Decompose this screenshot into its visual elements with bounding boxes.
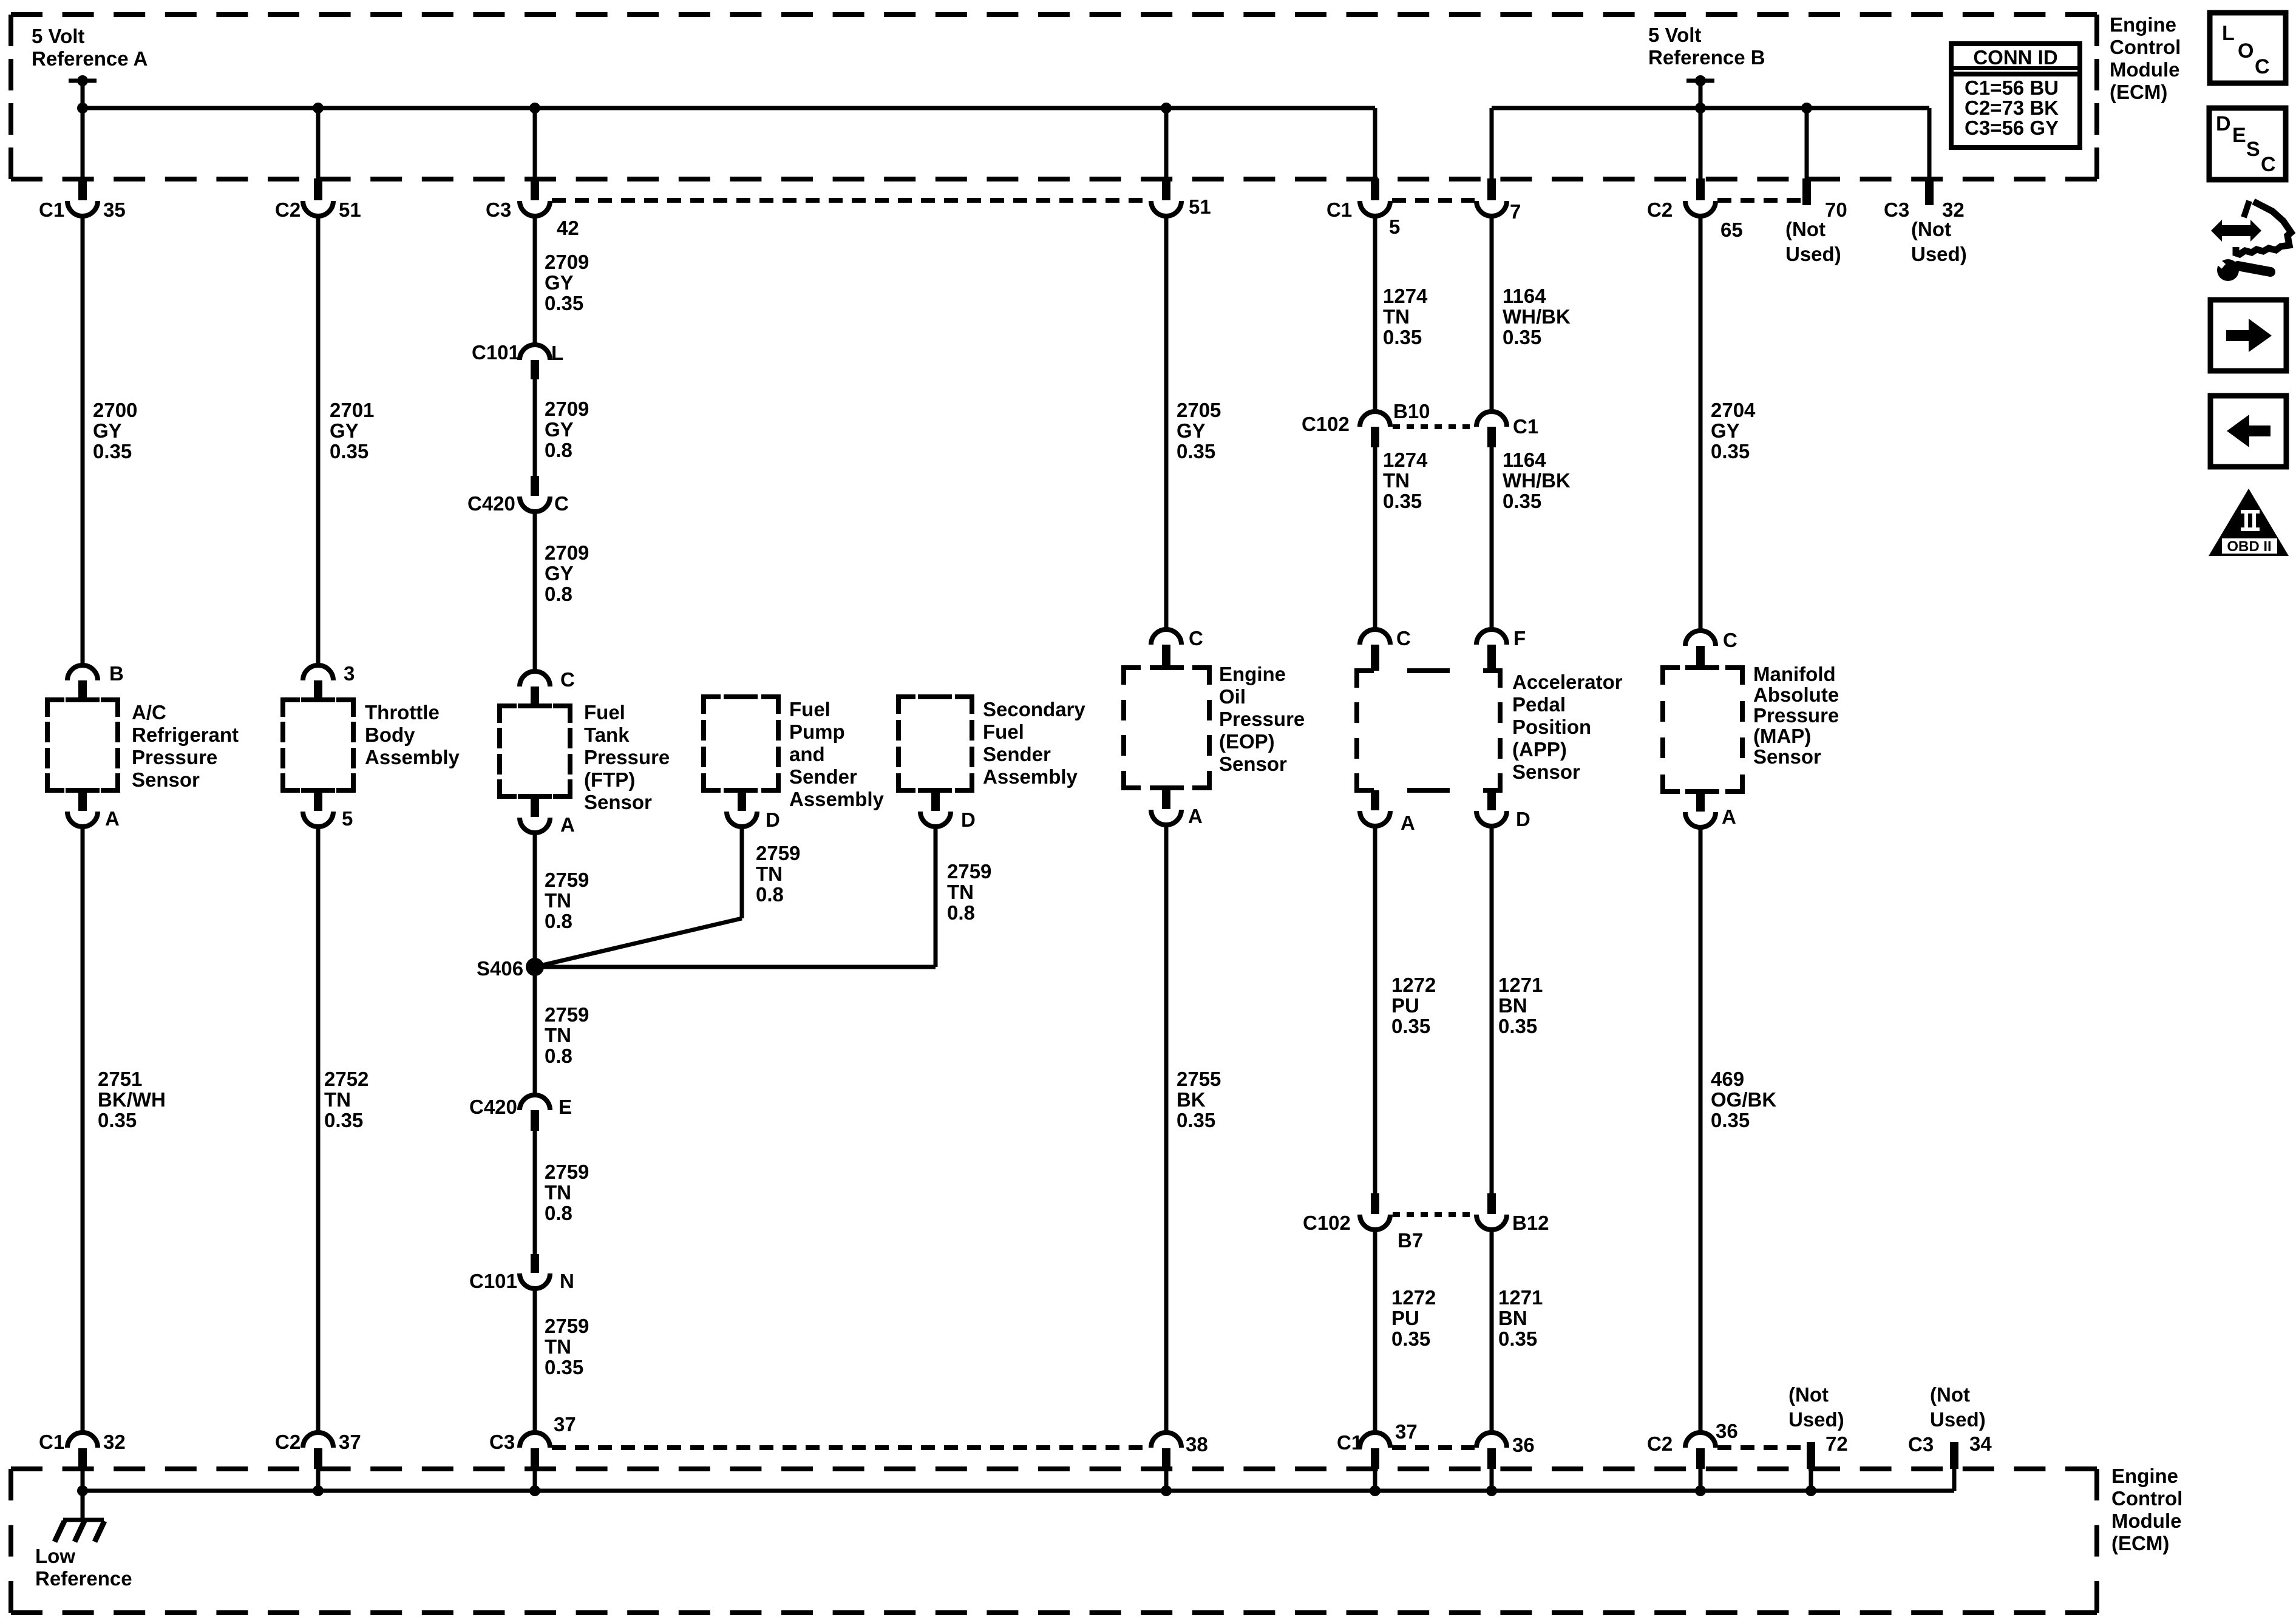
wire 2759 TN S406 to C420 E [533, 967, 537, 1096]
dotted connector line C3 37 to 38 [552, 1445, 1149, 1450]
svg-text:5: 5 [342, 807, 353, 830]
wire 1164 WH/BK C102 to APP pin F [1490, 447, 1494, 630]
svg-text:Sensor: Sensor [1512, 761, 1580, 783]
svg-text:(Not: (Not [1785, 218, 1826, 240]
svg-text:BK/WH: BK/WH [98, 1088, 166, 1111]
junction dots on bottom bus [77, 1485, 88, 1496]
svg-text:51: 51 [1189, 195, 1211, 218]
svg-text:70: 70 [1825, 198, 1847, 221]
svg-text:C: C [2261, 153, 2276, 176]
svg-text:3: 3 [344, 662, 355, 685]
pin C1:5 connector at ECM [1373, 108, 1377, 179]
svg-text:Sensor: Sensor [1753, 745, 1821, 768]
svg-text:OBD II: OBD II [2227, 538, 2271, 555]
svg-text:Fuel: Fuel [789, 698, 830, 720]
svg-text:Reference A: Reference A [32, 47, 148, 70]
svg-text:E: E [2232, 124, 2246, 147]
svg-text:S406: S406 [477, 957, 523, 980]
svg-text:Used): Used) [1785, 243, 1841, 265]
svg-text:C2=73 BK: C2=73 BK [1965, 97, 2059, 119]
pin 5 connector at throttle body [314, 790, 322, 811]
svg-text:PU: PU [1391, 994, 1419, 1017]
svg-text:1164: 1164 [1503, 449, 1546, 471]
svg-text:C: C [1189, 627, 1203, 649]
dotted connector line C1 5 to 7 [1392, 198, 1475, 203]
svg-text:(APP): (APP) [1512, 738, 1567, 761]
svg-text:F: F [1513, 627, 1526, 649]
Manifold Absolute Pressure MAP Sensor box [1663, 668, 1680, 685]
svg-text:2709: 2709 [545, 541, 589, 564]
svg-text:C3: C3 [486, 198, 511, 221]
ground chassis symbol [81, 1491, 85, 1520]
connector C420 pin E [520, 1095, 550, 1110]
wire 2759 TN C101 to C3:37 [533, 1289, 537, 1434]
svg-text:C3: C3 [1884, 198, 1909, 221]
svg-text:469: 469 [1711, 1068, 1744, 1090]
svg-text:A: A [1401, 812, 1415, 834]
svg-text:(EOP): (EOP) [1219, 730, 1275, 753]
svg-text:Pedal: Pedal [1512, 693, 1566, 716]
svg-text:0.35: 0.35 [1391, 1015, 1430, 1037]
pin C connector at APP sensor [1360, 629, 1390, 645]
svg-text:Assembly: Assembly [789, 788, 885, 810]
icon service vehicle outline [2244, 201, 2249, 217]
svg-text:C2: C2 [275, 1431, 301, 1453]
svg-text:C1: C1 [39, 1431, 64, 1453]
svg-text:37: 37 [1395, 1420, 1418, 1443]
svg-text:CONN ID: CONN ID [1973, 46, 2057, 69]
svg-text:Engine: Engine [2110, 13, 2176, 36]
svg-text:2755: 2755 [1177, 1068, 1221, 1090]
svg-text:Tank: Tank [584, 724, 630, 746]
svg-text:C: C [1396, 627, 1411, 649]
svg-text:0.35: 0.35 [1503, 326, 1541, 348]
svg-text:0.8: 0.8 [545, 910, 572, 932]
pin C2:37 connector at ECM bottom [303, 1432, 333, 1448]
svg-text:C102: C102 [1302, 413, 1350, 435]
A/C Refrigerant Pressure Sensor box [47, 700, 64, 717]
svg-text:C1=56 BU: C1=56 BU [1965, 76, 2059, 99]
icon arrow left box [2210, 396, 2286, 467]
svg-text:0.35: 0.35 [545, 1356, 583, 1378]
wire 2759 TN FTP sensor to S406 [533, 833, 537, 967]
svg-text:Pump: Pump [789, 720, 845, 743]
svg-text:5: 5 [1389, 215, 1400, 238]
svg-text:L: L [2222, 22, 2235, 45]
wire 2759 TN C420 to C101 N [533, 1131, 537, 1254]
wire 2709 GY C420 to FTP sensor [533, 512, 537, 672]
svg-text:GY: GY [1711, 419, 1740, 442]
svg-text:GY: GY [545, 271, 574, 294]
svg-text:OG/BK: OG/BK [1711, 1088, 1776, 1111]
svg-text:Secondary: Secondary [983, 698, 1085, 720]
svg-text:0.35: 0.35 [1503, 490, 1541, 512]
svg-text:1271: 1271 [1498, 1286, 1543, 1309]
svg-text:1271: 1271 [1498, 974, 1543, 996]
svg-text:C3: C3 [489, 1431, 515, 1453]
pin D connector at APP sensor [1487, 790, 1496, 810]
wire Low Reference bus [83, 1489, 1954, 1493]
wire 2752 TN throttle body to C2:37 [316, 827, 321, 1434]
svg-text:2759: 2759 [545, 869, 589, 891]
svg-text:0.35: 0.35 [324, 1109, 363, 1131]
wire 2709 GY C101 to C420 [533, 379, 537, 476]
svg-text:1164: 1164 [1503, 285, 1546, 307]
svg-text:37: 37 [339, 1431, 361, 1453]
wire 1272 PU APP to C102 B7 [1373, 826, 1377, 1193]
dotted connector line C2 65 to 70 [1717, 198, 1802, 203]
svg-text:Engine: Engine [2111, 1465, 2178, 1487]
svg-text:2701: 2701 [330, 399, 374, 421]
svg-text:2705: 2705 [1177, 399, 1221, 421]
svg-text:A: A [1188, 805, 1203, 827]
pin F connector at APP sensor [1476, 629, 1507, 645]
svg-text:Low: Low [35, 1545, 75, 1567]
pin A connector at FTP sensor [531, 796, 539, 817]
svg-text:Control: Control [2110, 36, 2181, 58]
svg-text:38: 38 [1186, 1433, 1208, 1456]
svg-text:0.35: 0.35 [1711, 1109, 1750, 1131]
svg-text:TN: TN [947, 881, 974, 903]
svg-text:C101: C101 [472, 341, 520, 364]
icon service double arrow [2211, 220, 2261, 242]
wire 1274 TN C1:5 to C102 B10 [1373, 216, 1377, 412]
CONN ID table [1951, 44, 2080, 147]
svg-text:D: D [766, 808, 780, 831]
svg-text:Fuel: Fuel [584, 701, 625, 724]
svg-text:(Not: (Not [1930, 1383, 1970, 1406]
connector C101 pin L [520, 345, 550, 360]
svg-text:(FTP): (FTP) [584, 768, 635, 791]
svg-text:Used): Used) [1911, 243, 1967, 265]
svg-text:Reference B: Reference B [1648, 46, 1765, 69]
ECM bottom dashed box [11, 1466, 2097, 1471]
svg-text:GY: GY [1177, 419, 1206, 442]
svg-text:Oil: Oil [1219, 685, 1246, 708]
svg-text:WH/BK: WH/BK [1503, 469, 1571, 492]
pin D connector at fuel pump [738, 790, 746, 811]
svg-text:51: 51 [339, 198, 361, 221]
svg-text:Pressure: Pressure [1753, 704, 1839, 727]
svg-text:TN: TN [1383, 469, 1410, 492]
svg-text:Manifold: Manifold [1753, 663, 1836, 685]
pin C2:51 connector at ECM [316, 108, 321, 179]
svg-text:0.35: 0.35 [1498, 1327, 1537, 1350]
svg-text:(ECM): (ECM) [2110, 81, 2167, 103]
svg-text:Pressure: Pressure [584, 746, 670, 768]
svg-text:0.35: 0.35 [98, 1109, 137, 1131]
dotted connector line C1 37 to 36 [1392, 1445, 1475, 1450]
svg-text:0.35: 0.35 [1383, 326, 1422, 348]
svg-text:36: 36 [1512, 1434, 1535, 1456]
svg-text:B12: B12 [1512, 1212, 1549, 1234]
wire 2701 GY C2:51 to throttle body [316, 216, 321, 666]
svg-text:Sender: Sender [983, 743, 1051, 765]
icon DESC box [2209, 108, 2286, 180]
pin C2:36 connector at ECM bottom [1685, 1432, 1716, 1448]
wire 2759 TN fuel pump to S406 [740, 827, 744, 918]
svg-text:Accelerator: Accelerator [1512, 671, 1623, 693]
connector C102 pin B10 [1360, 412, 1390, 427]
svg-text:BK: BK [1177, 1088, 1206, 1111]
pin A connector at MAP sensor [1696, 792, 1705, 812]
svg-text:0.35: 0.35 [1391, 1327, 1430, 1350]
svg-text:O: O [2238, 39, 2254, 63]
svg-text:2759: 2759 [545, 1315, 589, 1337]
pin 70 Not Used stub [1805, 108, 1809, 179]
svg-text:B: B [109, 662, 124, 685]
svg-text:37: 37 [554, 1413, 576, 1436]
svg-text:Throttle: Throttle [365, 701, 440, 724]
svg-text:L: L [551, 342, 563, 364]
connector C102 pin C1 [1476, 412, 1507, 427]
svg-text:(Not: (Not [1911, 218, 1951, 240]
svg-text:0.35: 0.35 [93, 440, 132, 463]
pin 51 connector at ECM (EOP feed) [1164, 108, 1169, 179]
svg-text:C3: C3 [1908, 1433, 1934, 1456]
svg-text:TN: TN [545, 1024, 571, 1046]
wire 2751 BK/WH A/C sensor to C1:32 [81, 827, 85, 1434]
svg-text:0.35: 0.35 [1383, 490, 1422, 512]
svg-text:Reference: Reference [35, 1567, 132, 1590]
svg-text:C1: C1 [1326, 198, 1352, 221]
pin A connector at EOP sensor [1162, 788, 1170, 809]
svg-text:5 Volt: 5 Volt [32, 25, 84, 47]
node 5V Reference B tap [1686, 79, 1714, 83]
svg-text:D: D [961, 808, 976, 831]
dashed connector line C102 B7 to B12 [1393, 1212, 1474, 1217]
svg-text:5 Volt: 5 Volt [1648, 24, 1701, 46]
pin C1:35 connector at ECM [81, 108, 85, 179]
svg-text:0.35: 0.35 [1711, 440, 1750, 463]
svg-text:GY: GY [545, 418, 574, 441]
svg-text:C102: C102 [1303, 1212, 1351, 1234]
svg-text:C: C [560, 668, 575, 691]
wire 2700 GY C1:35 to A/C sensor [81, 216, 85, 666]
wire 2705 GY pin51 to EOP sensor [1164, 216, 1169, 630]
svg-text:0.35: 0.35 [330, 440, 369, 463]
svg-text:2759: 2759 [947, 860, 991, 883]
splice S406 [526, 958, 544, 976]
svg-text:2759: 2759 [545, 1003, 589, 1026]
wire 2709 GY C3:42 to C101 [533, 216, 537, 345]
svg-text:(Not: (Not [1788, 1383, 1829, 1406]
pin C3:32 Not Used stub [1927, 108, 1932, 179]
svg-text:32: 32 [103, 1431, 126, 1453]
svg-text:72: 72 [1826, 1432, 1848, 1455]
svg-text:C2: C2 [1647, 198, 1673, 221]
node 5V Reference A tap [69, 79, 97, 83]
svg-text:Position: Position [1512, 716, 1591, 738]
pin C2:65 connector at ECM [1699, 108, 1703, 179]
svg-text:C2: C2 [1647, 1432, 1673, 1455]
connector C420 pin C [531, 476, 539, 496]
svg-text:34: 34 [1969, 1432, 1992, 1455]
svg-text:2704: 2704 [1711, 399, 1756, 421]
Fuel Pump and Sender Assembly box [704, 697, 721, 714]
svg-text:C: C [554, 492, 569, 515]
svg-text:2759: 2759 [756, 842, 800, 864]
svg-text:Sender: Sender [789, 765, 857, 788]
pin 36 connector at ECM bottom [1476, 1432, 1507, 1448]
svg-text:A: A [105, 807, 120, 830]
svg-text:E: E [559, 1096, 572, 1118]
icon service wrench [2217, 259, 2239, 281]
svg-text:C420: C420 [469, 1096, 517, 1118]
svg-text:1272: 1272 [1391, 1286, 1436, 1309]
svg-text:C: C [1723, 629, 1737, 651]
svg-text:GY: GY [93, 419, 122, 442]
svg-text:0.8: 0.8 [545, 583, 572, 605]
dotted connector line C3 42 to 51 [552, 198, 1149, 203]
svg-text:(MAP): (MAP) [1753, 725, 1811, 747]
svg-text:Module: Module [2111, 1510, 2181, 1532]
wire 1164 WH/BK pin7 to C102 C1 [1490, 216, 1494, 412]
pin C connector at MAP sensor [1685, 631, 1716, 646]
wire 5V Reference A bus [83, 106, 1375, 110]
Accelerator Pedal Position APP Sensor box [1357, 671, 1374, 688]
svg-text:0.8: 0.8 [545, 439, 572, 461]
svg-text:TN: TN [545, 1335, 571, 1358]
svg-text:C1: C1 [1337, 1431, 1362, 1454]
svg-text:C101: C101 [469, 1270, 517, 1292]
pin D connector at secondary fuel sender [931, 790, 940, 811]
svg-text:Used): Used) [1930, 1408, 1986, 1431]
svg-text:0.8: 0.8 [545, 1045, 572, 1067]
svg-text:Sensor: Sensor [1219, 753, 1287, 775]
svg-text:0.35: 0.35 [1498, 1015, 1537, 1037]
svg-text:BN: BN [1498, 1307, 1527, 1329]
svg-text:C420: C420 [467, 492, 515, 515]
pin 7 connector at ECM [1490, 108, 1494, 179]
icon arrow right box [2210, 300, 2286, 371]
wire 1272 PU C102 to C1:37 [1373, 1230, 1377, 1434]
svg-text:2751: 2751 [98, 1068, 142, 1090]
svg-text:(ECM): (ECM) [2111, 1532, 2169, 1554]
svg-text:0.8: 0.8 [545, 1202, 572, 1224]
svg-text:Control: Control [2111, 1487, 2182, 1510]
svg-text:N: N [560, 1270, 574, 1292]
svg-text:GY: GY [545, 562, 574, 585]
pin C3:34 Not Used stub bottom [1950, 1442, 1958, 1469]
svg-text:1272: 1272 [1391, 974, 1436, 996]
svg-text:0.35: 0.35 [545, 292, 583, 314]
wire 1271 BN C102 to pin 36 [1490, 1230, 1494, 1434]
svg-text:Fuel: Fuel [983, 720, 1024, 743]
svg-text:7: 7 [1510, 200, 1521, 223]
svg-text:C: C [2255, 55, 2270, 78]
svg-text:GY: GY [330, 419, 359, 442]
pin A connector at APP sensor [1371, 790, 1379, 810]
Fuel Tank Pressure FTP Sensor box [500, 706, 517, 723]
svg-text:0.8: 0.8 [756, 883, 784, 906]
dashed connector line C102 B10 to C1 [1393, 424, 1474, 429]
pin 38 connector at ECM bottom [1151, 1432, 1181, 1448]
svg-text:B7: B7 [1398, 1229, 1423, 1252]
connector C101 pin N [531, 1254, 539, 1273]
pin C connector at FTP sensor [520, 671, 550, 686]
svg-text:A/C: A/C [132, 701, 166, 724]
svg-text:Pressure: Pressure [132, 746, 217, 768]
wire 2759 TN secondary sender to S406 [934, 827, 938, 967]
connector C102 pin B7 [1371, 1193, 1379, 1214]
svg-text:D: D [1516, 808, 1530, 830]
svg-text:36: 36 [1716, 1420, 1738, 1442]
svg-text:TN: TN [545, 1181, 571, 1204]
wire 1271 BN APP to C102 B12 [1490, 826, 1494, 1193]
svg-text:D: D [2216, 112, 2231, 135]
pin 3 connector at throttle body [303, 665, 333, 680]
dotted connector line C2 36 to 72 [1717, 1445, 1806, 1450]
pin C1:32 connector at ECM bottom [67, 1432, 98, 1448]
svg-text:0.35: 0.35 [1177, 1109, 1215, 1131]
pin C1:37 connector at ECM bottom [1360, 1432, 1390, 1448]
pin C3:42 connector at ECM [533, 108, 537, 179]
svg-text:2752: 2752 [324, 1068, 369, 1090]
svg-text:C3=56 GY: C3=56 GY [1965, 117, 2059, 139]
svg-text:A: A [1722, 805, 1736, 828]
svg-text:2709: 2709 [545, 251, 589, 273]
svg-text:Sensor: Sensor [132, 768, 200, 791]
svg-text:Absolute: Absolute [1753, 683, 1839, 706]
svg-text:BN: BN [1498, 994, 1527, 1017]
svg-text:2709: 2709 [545, 398, 589, 420]
Secondary Fuel Sender Assembly box [898, 697, 915, 714]
svg-text:0.35: 0.35 [1177, 440, 1215, 463]
svg-text:2700: 2700 [93, 399, 137, 421]
junction dots on bus B [1695, 103, 1706, 114]
svg-text:Assembly: Assembly [983, 765, 1078, 788]
svg-text:TN: TN [1383, 305, 1410, 328]
svg-text:Engine: Engine [1219, 663, 1286, 685]
wire 2704 GY C2:65 to MAP sensor [1699, 216, 1703, 631]
pin 72 Not Used stub bottom [1807, 1442, 1815, 1469]
pin B connector at A/C sensor [67, 665, 98, 680]
svg-text:TN: TN [756, 863, 783, 885]
svg-text:C2: C2 [275, 198, 301, 221]
svg-text:Used): Used) [1788, 1408, 1844, 1431]
svg-text:TN: TN [324, 1088, 351, 1111]
junction dots on bus A [77, 103, 88, 114]
svg-text:Assembly: Assembly [365, 746, 460, 768]
svg-text:65: 65 [1720, 219, 1743, 241]
svg-text:C1: C1 [1513, 415, 1538, 438]
Engine Oil Pressure EOP Sensor box [1124, 668, 1141, 685]
svg-text:B10: B10 [1393, 400, 1430, 422]
wire 2755 BK EOP sensor to pin 38 [1164, 825, 1169, 1434]
svg-text:WH/BK: WH/BK [1503, 305, 1571, 328]
ECM top dashed box [11, 12, 2097, 17]
svg-text:Module: Module [2110, 58, 2179, 81]
wire 469 OG/BK MAP sensor to C2:36 [1699, 827, 1703, 1434]
svg-text:0.8: 0.8 [947, 901, 975, 924]
svg-text:1274: 1274 [1383, 285, 1428, 307]
svg-text:2759: 2759 [545, 1161, 589, 1183]
svg-text:Refrigerant: Refrigerant [132, 724, 239, 746]
wire 5V Reference B bus [1492, 106, 1929, 110]
wire 1274 TN C102 to APP pin C [1373, 447, 1377, 630]
Throttle Body Assembly box [283, 700, 300, 717]
svg-text:TN: TN [545, 889, 571, 912]
svg-text:A: A [560, 813, 575, 836]
pin C3:37 connector at ECM bottom [520, 1432, 550, 1448]
pin A connector at A/C sensor [78, 790, 87, 811]
icon LOC box [2210, 13, 2286, 83]
svg-text:Body: Body [365, 724, 415, 746]
svg-text:1274: 1274 [1383, 449, 1428, 471]
svg-text:C1: C1 [39, 198, 64, 221]
svg-text:S: S [2246, 138, 2260, 161]
